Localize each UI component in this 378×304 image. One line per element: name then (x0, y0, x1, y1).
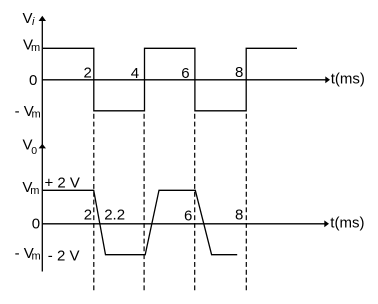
node Vi axis arrowhead (39, 16, 46, 21)
svg-text:0: 0 (29, 72, 37, 89)
svg-text:6: 6 (181, 65, 189, 82)
wire V0 time axis (42, 223, 325, 225)
svg-text:m: m (30, 185, 39, 197)
svg-text:4: 4 (131, 65, 139, 82)
svg-text:m: m (32, 108, 41, 120)
svg-text:t(ms): t(ms) (331, 71, 365, 88)
svg-text:m: m (32, 251, 41, 263)
wire Vi time axis (42, 79, 326, 81)
wire vertical axis (shared Vi / V0) (41, 17, 43, 272)
svg-text:2: 2 (84, 64, 92, 81)
node Vi time axis arrowhead (325, 76, 330, 83)
svg-text:2.2: 2.2 (104, 207, 125, 224)
node t=8 dashed line (245, 114, 247, 290)
svg-text:0: 0 (31, 145, 37, 157)
svg-text:+ 2 V: + 2 V (45, 175, 80, 192)
svg-text:0: 0 (32, 215, 40, 232)
svg-text:8: 8 (235, 64, 243, 81)
svg-text:8: 8 (235, 207, 243, 224)
wire Vi square waveform (43, 48, 297, 111)
node t=4 dashed line (143, 114, 145, 290)
svg-text:m: m (31, 42, 40, 54)
svg-text:t(ms): t(ms) (330, 215, 364, 232)
node t=6 dashed line (194, 114, 196, 290)
svg-text:V: V (23, 10, 33, 27)
svg-text:2: 2 (84, 207, 92, 224)
node V0 time axis arrowhead (324, 220, 329, 227)
svg-text:- 2 V: - 2 V (48, 248, 80, 265)
svg-text:6: 6 (184, 208, 192, 225)
node V0 axis arrowhead (39, 144, 46, 149)
wire V0 clipped trapezoidal waveform (43, 190, 237, 254)
node t=2 dashed line (93, 114, 95, 290)
svg-text:i: i (32, 16, 35, 28)
